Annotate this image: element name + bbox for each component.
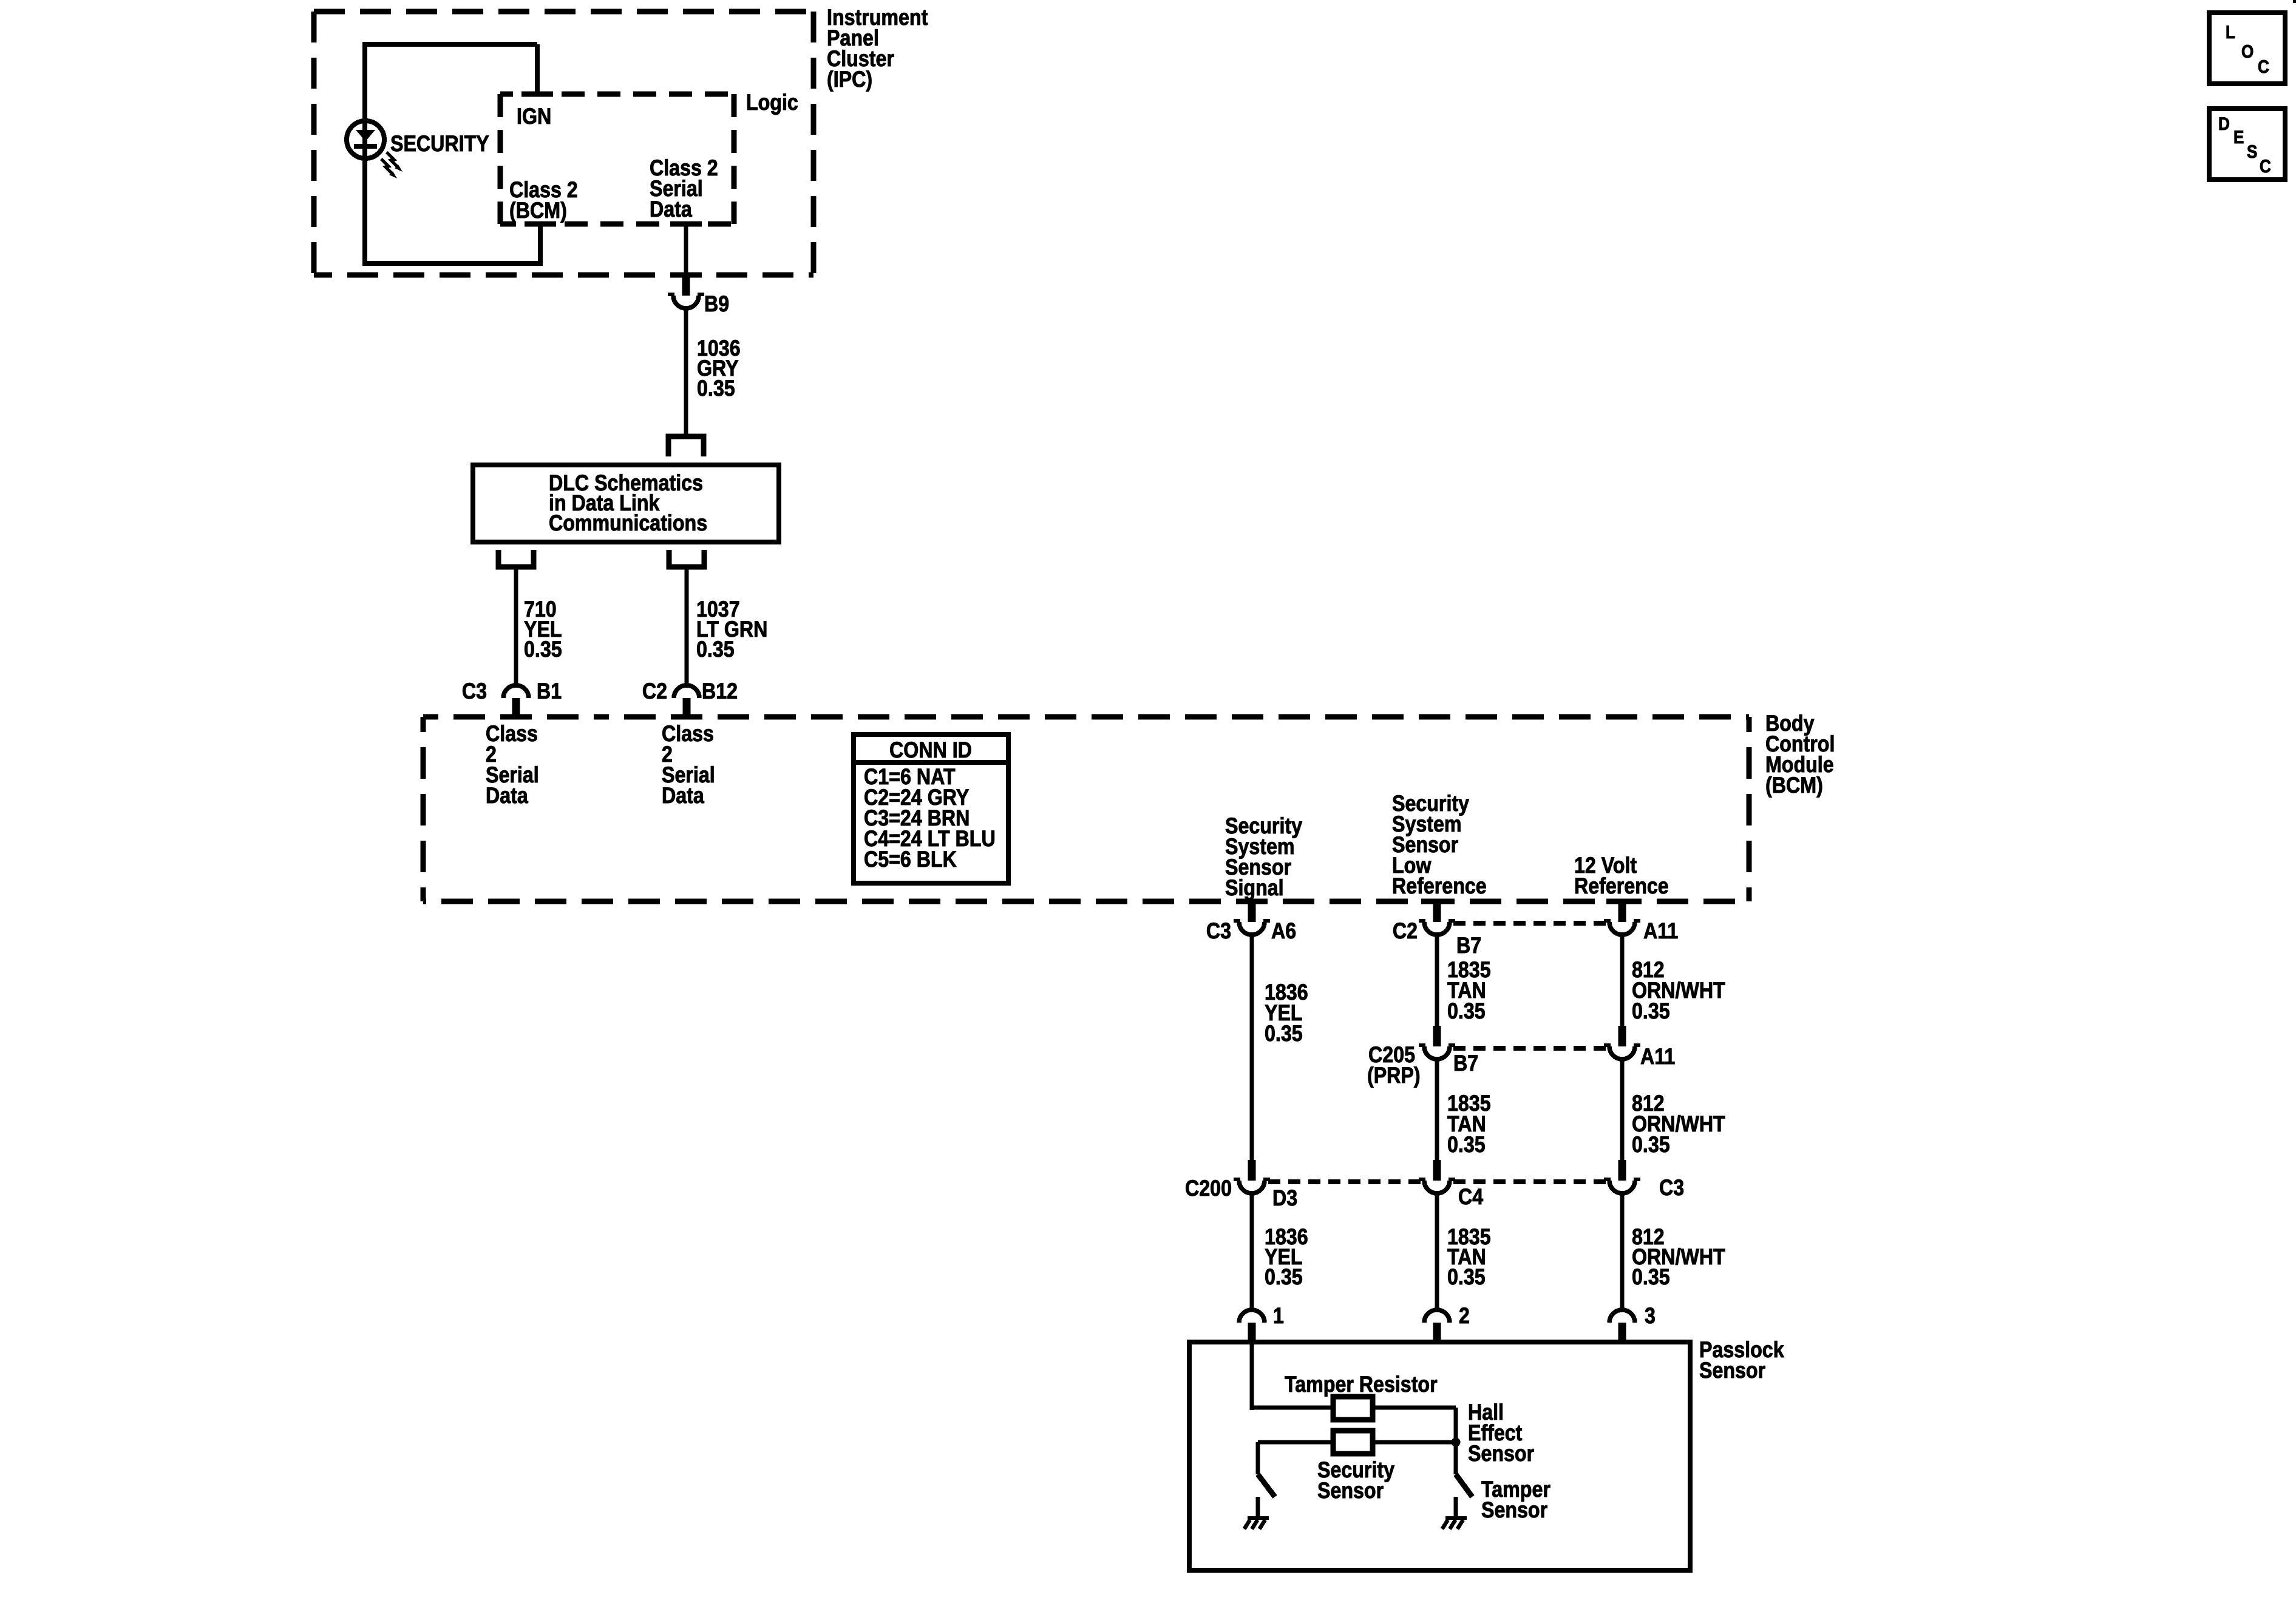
svg-text:B1: B1	[537, 679, 562, 703]
ground: security sensor	[1245, 1497, 1269, 1529]
svg-text:B9: B9	[704, 291, 729, 316]
svg-text:A6: A6	[1271, 918, 1296, 943]
svg-text:B12: B12	[702, 679, 738, 703]
connector staple below DLC box left	[498, 550, 534, 567]
node label: Security System Sensor Signal	[1225, 813, 1302, 900]
svg-text:Reference: Reference	[1574, 873, 1669, 898]
svg-text:Logic: Logic	[746, 90, 798, 115]
label: 1 (pin)	[1273, 1303, 1284, 1328]
svg-text:C: C	[2258, 57, 2269, 77]
wire 1835 TAN 0.35 mid segment	[1435, 1059, 1439, 1160]
label: IGN pin of logic block	[517, 104, 551, 129]
svg-text:B7: B7	[1453, 1051, 1478, 1076]
wire label: 1836 YEL 0.35 (upper)	[1265, 980, 1308, 1046]
svg-text:0.35: 0.35	[1632, 1264, 1670, 1289]
connector C200/C4 socket arc	[1419, 1179, 1455, 1193]
connector C2/B12 plug arc	[674, 685, 699, 698]
svg-text:Data: Data	[650, 197, 692, 222]
solid border segments under BCM bottom stubs	[1236, 899, 1638, 904]
svg-text:Reference: Reference	[1392, 873, 1487, 898]
LED D1 light emission arrow 2	[381, 159, 397, 178]
svg-text:D3: D3	[1272, 1185, 1297, 1210]
label: DLC Schematics in Data Link Communications	[549, 470, 707, 535]
node label: Class 2 Serial Data (right)	[662, 721, 715, 808]
svg-text:Data: Data	[486, 783, 528, 808]
wire 812 ORN/WHT 0.35 mid segment	[1620, 1059, 1625, 1160]
LED D1 SECURITY indicator circle	[347, 121, 384, 158]
svg-text:0.35: 0.35	[524, 637, 562, 662]
wire label: 1036 GRY 0.35	[697, 336, 741, 401]
svg-text:Tamper Resistor: Tamper Resistor	[1285, 1372, 1438, 1397]
connector pin 2 plug arc	[1424, 1310, 1450, 1323]
svg-text:Communications: Communications	[549, 510, 707, 535]
label: connector id list	[864, 764, 996, 872]
wire: top horizontal IGN feed	[362, 42, 537, 47]
connector C205/B7 terminal stub	[1433, 1026, 1441, 1046]
label: Body Control Module (BCM)	[1765, 711, 1835, 798]
connector A11 socket arc	[1604, 921, 1640, 935]
logic block box inside IPC, dashed outline	[500, 94, 734, 224]
node label: 12 Volt Reference	[1574, 853, 1669, 898]
wire: tamper resistor to hall effect node	[1373, 1406, 1456, 1410]
resistor R1 Tamper Resistor	[1333, 1397, 1373, 1420]
svg-text:C: C	[2260, 157, 2271, 177]
legend box LOC	[2209, 13, 2285, 84]
label: C200 (connector id)	[1185, 1176, 1232, 1201]
svg-text:0.35: 0.35	[1632, 998, 1670, 1023]
connector staple below DLC box right	[669, 550, 704, 567]
svg-text:Data: Data	[662, 783, 704, 808]
wire: vertical from Class 2 (BCM) pin	[538, 224, 543, 266]
connector C200/D3 socket arc	[1234, 1179, 1270, 1193]
label: C2 (connector id)	[1393, 918, 1418, 943]
svg-text:A11: A11	[1643, 918, 1678, 943]
connector C3/B1 plug arc	[503, 685, 529, 698]
dashed connector link line (C200 row left)	[1268, 1179, 1421, 1184]
wire 1835 TAN 0.35 upper segment	[1435, 935, 1439, 1026]
svg-text:A11: A11	[1640, 1044, 1675, 1069]
label: CONN ID	[889, 737, 972, 762]
wire 1036 GRY 0.35 segment	[684, 308, 688, 435]
label: B7 (pin)	[1456, 933, 1481, 958]
node junction dot	[1452, 1438, 1461, 1447]
wire 710 YEL 0.35 segment	[514, 567, 518, 683]
node label: Security System Sensor Low Reference	[1392, 791, 1487, 898]
connector C200/C3 socket arc	[1604, 1179, 1640, 1193]
connector C200/C3 terminal stub	[1618, 1160, 1626, 1181]
svg-text:0.35: 0.35	[1447, 1264, 1486, 1289]
svg-text:CONN ID: CONN ID	[889, 737, 972, 762]
wire label: 1037 LT GRN 0.35	[696, 597, 767, 662]
legend box DESC	[2209, 109, 2285, 180]
label: C3 (connector id)	[1206, 918, 1231, 943]
label: 2 (pin)	[1459, 1303, 1470, 1328]
module box: Body Control Module (BCM), dashed outline	[423, 717, 1749, 901]
connector pin 1 terminal stub	[1248, 1323, 1256, 1344]
label: C4 (pin)	[1458, 1184, 1483, 1209]
svg-text:C3: C3	[1206, 918, 1231, 943]
solid border segment under B9 crossing	[670, 273, 702, 278]
connector A11 terminal stub	[1618, 901, 1626, 922]
svg-text:(PRP): (PRP)	[1367, 1063, 1421, 1088]
wire 812 ORN/WHT 0.35 upper segment	[1620, 935, 1625, 1026]
wire label: 812 ORN/WHT 0.35 (lower)	[1632, 1224, 1725, 1289]
svg-text:0.35: 0.35	[1265, 1264, 1303, 1289]
wire: to tamper resistor	[1252, 1406, 1333, 1410]
label: Hall Effect Sensor	[1468, 1400, 1534, 1466]
connector staple into DLC box	[668, 436, 704, 456]
svg-text:C5=6 BLK: C5=6 BLK	[864, 847, 957, 872]
svg-text:Sensor: Sensor	[1468, 1441, 1534, 1466]
connector pin 3 terminal stub	[1618, 1323, 1626, 1344]
LED D1 cathode bar	[354, 144, 377, 149]
wire: vertical into IGN pin	[535, 44, 540, 94]
wire 812 ORN/WHT 0.35 lower segment	[1620, 1193, 1625, 1308]
dashed connector link line (BCM bottom row)	[1453, 921, 1606, 926]
connector C3/A6 socket arc	[1234, 921, 1270, 935]
wire: down to junction	[1454, 1408, 1458, 1439]
connector pin 2 terminal stub	[1433, 1323, 1441, 1344]
svg-text:0.35: 0.35	[697, 376, 735, 401]
label: C2 (connector id)	[642, 679, 667, 703]
label: Class 2 Serial Data pin of logic block	[650, 155, 718, 222]
svg-text:Sensor: Sensor	[1699, 1358, 1765, 1383]
svg-text:C2: C2	[642, 679, 667, 703]
module box: Instrument Panel Cluster (IPC), dashed outline	[314, 12, 813, 275]
resistor R2 security sensor resistor	[1333, 1431, 1373, 1454]
svg-text:2: 2	[1459, 1303, 1470, 1328]
connector C205/B7 socket arc	[1419, 1045, 1455, 1059]
wire: junction to resistor R2	[1373, 1440, 1453, 1445]
label: Tamper Resistor	[1285, 1372, 1438, 1397]
label: D3 (pin)	[1272, 1185, 1297, 1210]
wire label: 1835 TAN 0.35 (upper)	[1447, 957, 1491, 1023]
svg-text:S: S	[2247, 142, 2257, 162]
wire 1037 LT GRN 0.35 segment	[685, 567, 689, 683]
module box: Passlock Sensor	[1189, 1342, 1690, 1570]
label: A11 (pin)	[1643, 918, 1678, 943]
label: Logic	[746, 90, 798, 115]
wire 1836 YEL 0.35 upper segment	[1250, 935, 1254, 1160]
svg-text:L: L	[2226, 22, 2235, 42]
svg-text:O: O	[2241, 42, 2254, 62]
connector B9 terminal stub	[682, 275, 690, 296]
svg-text:C200: C200	[1185, 1176, 1232, 1201]
svg-text:C3: C3	[462, 679, 487, 703]
wire 1835 TAN 0.35 lower segment	[1435, 1193, 1439, 1308]
ground: tamper sensor	[1442, 1497, 1467, 1529]
module box: DLC Schematics in Data Link Communications	[473, 465, 779, 542]
svg-text:IGN: IGN	[517, 104, 551, 129]
label: C205 (PRP)	[1367, 1042, 1421, 1088]
svg-text:(BCM): (BCM)	[1765, 773, 1823, 798]
connector C3/B1 terminal stub	[512, 698, 520, 719]
label: Instrument Panel Cluster (IPC)	[827, 5, 928, 92]
wire: pin 1 into sensor	[1250, 1344, 1254, 1410]
svg-text:0.35: 0.35	[1447, 998, 1486, 1023]
wire label: 812 ORN/WHT 0.35 (mid)	[1632, 1091, 1725, 1157]
label: Class 2 (BCM) pin of logic block	[509, 177, 578, 223]
label: A11 (pin)	[1640, 1044, 1675, 1069]
label: C3 (pin)	[1659, 1175, 1684, 1200]
wire label: 812 ORN/WHT 0.35 (upper)	[1632, 957, 1725, 1023]
svg-text:C3: C3	[1659, 1175, 1684, 1200]
connector A11 mid socket arc	[1604, 1045, 1640, 1059]
svg-text:B7: B7	[1456, 933, 1481, 958]
wire: Class 2 serial data from logic block	[684, 224, 688, 274]
label: SECURITY	[390, 131, 489, 156]
connector A11 mid terminal stub	[1618, 1026, 1626, 1046]
wire: junction down to tamper sensor switch	[1454, 1445, 1458, 1474]
svg-text:Sensor: Sensor	[1317, 1478, 1384, 1503]
label: 3 (pin)	[1645, 1303, 1656, 1328]
node label: Class 2 Serial Data (left)	[486, 721, 539, 808]
svg-text:D: D	[2218, 114, 2230, 134]
label: Security Sensor	[1317, 1457, 1394, 1503]
connector C200/C4 terminal stub	[1433, 1160, 1441, 1181]
connector B9 socket arc	[668, 294, 704, 308]
connector C2/B12 terminal stub	[683, 698, 691, 719]
label: B7 (pin)	[1453, 1051, 1478, 1076]
wire: bottom horizontal return	[362, 261, 540, 266]
wire label: 1835 TAN 0.35 (lower)	[1447, 1224, 1491, 1289]
svg-text:(BCM): (BCM)	[509, 198, 567, 223]
wire: resistor R2 to security sensor switch	[1258, 1440, 1333, 1445]
connector pin 1 plug arc	[1239, 1310, 1265, 1323]
switch SW2 tamper sensor blade	[1456, 1474, 1472, 1497]
wire label: 1835 TAN 0.35 (mid)	[1447, 1091, 1491, 1157]
svg-text:C2: C2	[1393, 918, 1418, 943]
wire 1836 YEL 0.35 lower segment	[1250, 1193, 1254, 1308]
svg-text:3: 3	[1645, 1303, 1656, 1328]
svg-text:0.35: 0.35	[1447, 1132, 1486, 1157]
svg-text:E: E	[2233, 127, 2244, 147]
label: B12 (pin)	[702, 679, 738, 703]
connector C200/D3 terminal stub	[1248, 1160, 1256, 1181]
page corner mark	[2293, 0, 2296, 3]
label: Tamper Sensor	[1481, 1477, 1550, 1522]
label: A6 (pin)	[1271, 918, 1296, 943]
svg-text:C4: C4	[1458, 1184, 1483, 1209]
dashed connector link line (C205 row)	[1453, 1046, 1606, 1051]
svg-text:SECURITY: SECURITY	[390, 131, 489, 156]
svg-text:0.35: 0.35	[1632, 1132, 1670, 1157]
dashed connector link line (C200 row right)	[1453, 1179, 1606, 1184]
connector pin 3 plug arc	[1609, 1310, 1635, 1323]
label: B9	[704, 291, 729, 316]
label: C3 (connector id)	[462, 679, 487, 703]
wire label: 1836 YEL 0.35 (lower)	[1265, 1224, 1308, 1289]
svg-text:1: 1	[1273, 1303, 1284, 1328]
switch SW1 security sensor blade	[1258, 1474, 1275, 1497]
CONN ID table box	[854, 734, 1008, 883]
connector C2/B7 socket arc	[1419, 921, 1455, 935]
solid border segments under BCM top stubs	[500, 714, 702, 720]
connector C2/B7 terminal stub	[1433, 901, 1441, 922]
svg-text:0.35: 0.35	[1265, 1021, 1303, 1046]
LED D1 diode triangle (cathode down)	[356, 130, 375, 141]
connector C3/A6 terminal stub	[1248, 901, 1256, 922]
LED D1 light emission arrow 1	[387, 152, 402, 172]
svg-text:Signal: Signal	[1225, 875, 1284, 900]
svg-text:Sensor: Sensor	[1481, 1497, 1547, 1522]
label: Passlock Sensor	[1699, 1337, 1784, 1383]
svg-text:0.35: 0.35	[696, 637, 735, 662]
wire: LED anode up from circle	[362, 42, 367, 266]
label: B1 (pin)	[537, 679, 562, 703]
wire: down to security sensor switch	[1256, 1442, 1260, 1474]
svg-text:(IPC): (IPC)	[827, 67, 872, 92]
wire label: 710 YEL 0.35	[524, 597, 562, 662]
